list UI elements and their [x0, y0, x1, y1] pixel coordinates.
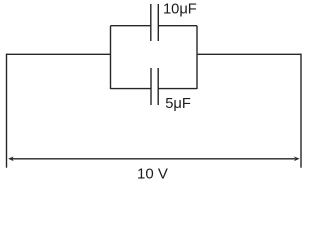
- svg-text:5μF: 5μF: [165, 96, 191, 112]
- svg-text:10μF: 10μF: [163, 1, 197, 17]
- svg-text:10 V: 10 V: [137, 166, 168, 183]
